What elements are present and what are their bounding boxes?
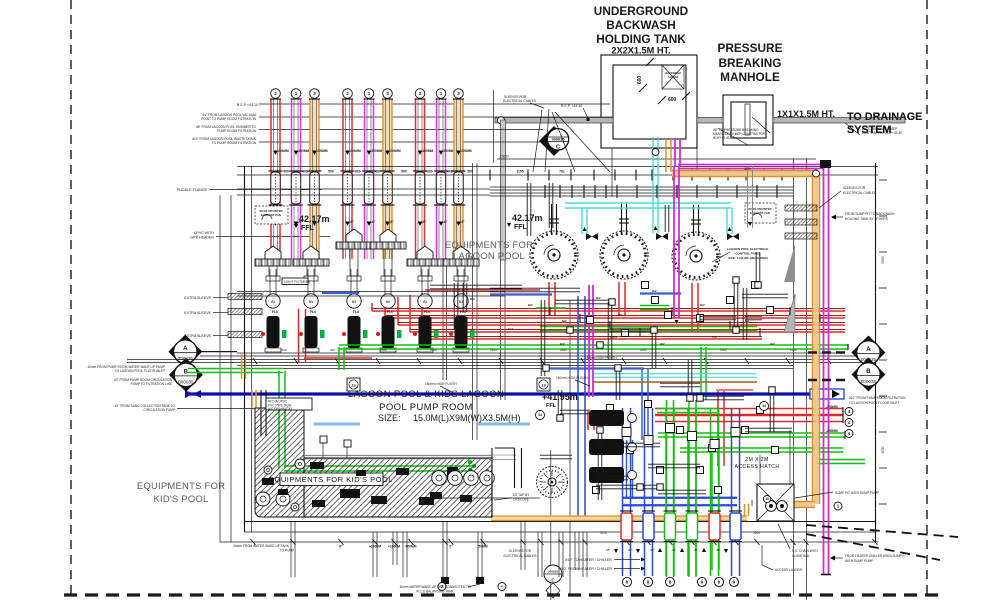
page border right [926,0,928,600]
green drop b [689,400,696,577]
panel leader [712,252,730,262]
svg-text:TO PUMP: TO PUMP [280,549,294,553]
svg-text:BOP+43.40: BOP+43.40 [713,136,730,140]
roof fan right [745,203,776,223]
center vertical pair 2 [472,163,474,440]
svg-text:EXTRA SLEEVE: EXTRA SLEEVE [184,311,211,315]
blue bottom header [623,498,737,506]
bundle line 6 [237,368,793,370]
svg-text:1300: 1300 [280,348,287,352]
svg-text:-45°: -45° [671,548,677,552]
red drop mid [588,411,594,430]
green main mid [540,327,757,331]
svg-text:CONTROL PANEL: CONTROL PANEL [735,252,761,256]
svg-text:A/C DRAINAGE): A/C DRAINAGE) [268,407,292,411]
marker C bottom [544,565,562,583]
svg-text:FFL: FFL [301,225,315,232]
svg-text:3500: 3500 [744,167,751,171]
svg-text:CONTRACTOR BOP+43.40: CONTRACTOR BOP+43.40 [862,131,902,135]
marker C top circle [547,129,568,150]
red cap right [842,407,844,423]
sleeve bar 2 [228,309,262,315]
sleeve bar r1 [785,205,817,211]
svg-text:+1600M: +1600M [369,545,381,549]
floor pipe stub 8 [537,532,539,577]
orange drop bottom [744,504,746,516]
svg-text:ELECTRICAL CABLES: ELECTRICAL CABLES [503,99,536,103]
svg-text:400: 400 [447,170,453,174]
floor pipe stub 11 [582,532,584,577]
svg-text:C: C [556,145,560,151]
tank outer wall [601,55,697,148]
marker A left [168,335,202,369]
svg-text:#10" FROM HEATER / CHILLER: #10" FROM HEATER / CHILLER [560,567,613,571]
svg-text:1: 1 [440,91,443,96]
orange bottom header [491,517,747,521]
svg-text:ACCESS HATCH: ACCESS HATCH [734,464,779,470]
orange header [672,171,816,177]
svg-text:SIZE: 1.2(L)X0.4(D)X0.4M(D): SIZE: 1.2(L)X0.4(D)X0.4M(D) [728,256,768,260]
column fittings [622,428,631,437]
marker A right [851,336,885,370]
sleeve bar r2 [785,219,817,225]
grey riser pair right [747,166,749,228]
svg-text:1: 1 [295,91,298,96]
pipe tank inlet [495,118,613,124]
red main 4 [410,331,845,333]
light fixture leaders [237,291,505,293]
hatch pump circles [256,492,270,506]
green drop d [701,347,706,400]
svg-text:13: 13 [351,383,355,387]
svg-text:-6": -6" [390,220,395,224]
svg-text:-45°: -45° [649,548,655,552]
black pipework [453,283,455,330]
sleeve line [493,90,495,163]
filter valve bowties [586,233,598,240]
bundle line 4 [127,362,875,364]
pipe tank to manhole [697,118,723,124]
floor pipe stub 2 [372,532,374,577]
hc pump 3 [589,467,624,483]
svg-text:1500: 1500 [380,348,387,352]
svg-text:#10" TO HEATER / CHILLER: #10" TO HEATER / CHILLER [565,558,612,562]
blue seg b [640,292,681,294]
red left riser [299,309,306,363]
circ1 right [834,502,842,510]
svg-text:B/V: B/V [700,303,705,307]
red main 1 [372,310,845,312]
green mid 2 [658,433,845,437]
svg-text:FROM HEATER CHILLER AREA SUMP: FROM HEATER CHILLER AREA SUMP P. [845,554,905,558]
svg-text:SIZE:: SIZE: [378,413,401,423]
svg-text:400: 400 [283,170,289,174]
svg-text:761: 761 [559,170,565,174]
riser pipe 5 [364,89,374,99]
red main short [425,289,540,291]
pipe elbow fitting [497,117,504,124]
svg-text:ACCESS LADDER: ACCESS LADDER [775,568,803,572]
box 13 left [347,378,360,391]
room bottom wall a [244,521,875,523]
bottom column 6 [732,408,740,576]
stub cap 1 [441,577,449,584]
magenta tank drop [674,139,676,166]
tank inner wall [613,65,686,139]
orange elbow circle [813,170,820,177]
svg-text:18: 18 [453,468,457,472]
plinth dashes 2 [476,423,530,426]
svg-text:SLEEVES FOR: SLEEVES FOR [843,186,866,190]
svg-text:P/G: P/G [712,335,717,339]
magenta drop long [673,166,675,318]
orange sump link [757,502,815,508]
svg-text:50MM: 50MM [478,545,487,549]
svg-text:000035: 000035 [861,379,877,384]
svg-text:-6": -6" [422,220,427,224]
leader line 2 [259,116,613,118]
kid top fittings [320,436,327,443]
svg-text:HOLDING TANK: HOLDING TANK [596,32,686,46]
sand filter 1 [530,231,578,279]
backwash access hatch [662,65,684,89]
magenta cap [821,574,831,576]
svg-text:40mm FROM WATER WAKE-UP TANK: 40mm FROM WATER WAKE-UP TANK [233,544,290,548]
floor pipe stub 4 [402,532,404,577]
stub circ a [438,583,446,591]
svg-text:FFL: FFL [514,224,528,231]
svg-text:000035: 000035 [548,570,558,574]
svg-text:PUDDLE FLANGE: PUDDLE FLANGE [177,188,208,192]
plinth edge [304,455,492,457]
cyan riser tank [653,137,658,233]
stub circ b [498,583,506,591]
sump marker [763,495,770,502]
room top line [497,158,816,160]
blue main valve [185,390,193,398]
svg-text:3: 3 [313,91,316,96]
bottom filter [537,467,568,498]
green left header [188,369,283,373]
svg-text:-6": -6" [371,220,376,224]
svg-text:01: 01 [423,300,427,304]
svg-text:B/V: B/V [560,342,565,346]
green short left [640,306,669,310]
leader to drainage [845,123,860,135]
flange ticks on header [489,170,491,181]
sand filter 2 [600,231,648,279]
red main 5 [422,338,762,340]
svg-text:900: 900 [330,348,335,352]
header pipe bottom [490,192,793,194]
hatch area vertical [255,408,304,517]
pump unit 2 [303,246,319,259]
svg-text:SLEEVES FOR: SLEEVES FOR [509,549,532,553]
svg-text:15: 15 [765,497,769,501]
svg-text:TO LAGOON POOL FLOOR INLET: TO LAGOON POOL FLOOR INLET [849,401,899,405]
svg-text:ELECTRICAL CABLES: ELECTRICAL CABLES [843,191,876,195]
svg-text:-200MM: -200MM [277,149,289,153]
svg-text:3000: 3000 [753,531,760,535]
svg-text:500: 500 [467,170,473,174]
svg-text:UNDERGROUND: UNDERGROUND [594,4,689,18]
pipe manhole to drainage [773,118,905,124]
green drop left [279,371,285,468]
manhole inner wall [731,102,766,138]
svg-text:600: 600 [637,76,643,85]
svg-text:-45°: -45° [715,548,721,552]
red bundle flanges [549,307,551,315]
svg-text:PUMP ROOM FILTRATION: PUMP ROOM FILTRATION [217,129,257,133]
red elbows [371,303,373,311]
svg-text:GUIDE RAIL: GUIDE RAIL [792,554,810,558]
svg-text:B/V: B/V [660,342,665,346]
pump unit 3 [346,229,362,242]
pump unit 6 [453,246,469,259]
svg-text:3: 3 [457,91,460,96]
plinth dashes 1 [314,423,360,426]
svg-text:-200MM: -200MM [389,149,401,153]
grey stair wedge [784,244,795,282]
red drop filter 3 [692,283,698,332]
svg-text:1500: 1500 [490,348,497,352]
svg-text:18: 18 [485,468,489,472]
manhole outer wall [723,95,773,145]
svg-text:1000: 1000 [750,499,754,506]
circ4 a [845,408,853,416]
dimension line bottom [220,541,878,543]
mid vertical line 2 [550,450,552,600]
riser pipe 3 [310,89,320,99]
svg-text:TO PUMP ROOM FILTRATION: TO PUMP ROOM FILTRATION [212,141,257,145]
stub cap 2 [476,577,484,584]
svg-text:6": 6" [339,545,343,549]
manifold line a [237,166,878,168]
blue seg c [546,367,644,369]
svg-text:N/C: N/C [562,319,567,323]
floor pipe stub 3 [392,532,394,565]
blue riser tall [578,296,585,516]
blue seg a [322,292,359,294]
marker C leaders [533,110,542,172]
bottom column 3 [666,408,674,576]
red main 2 [385,317,845,319]
room bottom wall b [244,531,875,533]
svg-text:CIRCULATION PUMP: CIRCULATION PUMP [144,408,175,412]
svg-text:4500: 4500 [881,446,885,453]
svg-text:B/V: B/V [770,342,775,346]
svg-text:150mm HIGH PLINTH: 150mm HIGH PLINTH [425,382,457,386]
svg-text:EXTRA SLEEVE: EXTRA SLEEVE [184,296,211,300]
green valve dots [468,460,472,464]
svg-text:EQUIPMENTS FOR: EQUIPMENTS FOR [445,240,533,251]
right wall outer [806,159,808,600]
bar ticks [255,259,257,266]
svg-text:-45°: -45° [693,548,699,552]
right dim ticks [879,179,887,181]
svg-text:EQUIPMENTS FOR KID'S POOL: EQUIPMENTS FOR KID'S POOL [269,475,393,484]
cyan valve circle [652,149,659,156]
svg-text:B.S.P +44.10: B.S.P +44.10 [237,103,258,107]
orange left sliver [251,390,253,408]
manifold line b [237,174,878,176]
svg-text:54: 54 [538,413,542,417]
svg-text:CRSCOPE: CRSCOPE [513,498,529,502]
svg-text:R.C.C BALANCING TANK: R.C.C BALANCING TANK [416,590,454,594]
svg-text:A: A [183,346,188,352]
leader line 3 [259,129,543,131]
pump unit 5 [417,246,433,259]
cyan stub 2 [727,208,732,234]
svg-text:34: 34 [762,404,766,408]
pump unit 4 [380,229,396,242]
svg-text:1: 1 [368,91,371,96]
svg-text:600: 600 [355,170,361,174]
svg-text:TO LAGOON POOL FLOOR INLET: TO LAGOON POOL FLOOR INLET [115,369,165,373]
svg-text:-45°: -45° [627,548,633,552]
svg-text:FFL: FFL [546,403,557,409]
riser pipe 6 [383,89,393,99]
pipe fittings [607,405,614,412]
bottom column 1 [623,408,631,576]
hatch area horizontal [304,458,492,517]
magenta elbow block [820,160,831,168]
dashed diag 2 [806,534,940,560]
svg-text:+41.95m: +41.95m [542,392,578,402]
svg-text:-200MM: -200MM [826,429,838,433]
grey link pipe [489,454,516,456]
kid pump 1 [432,471,447,486]
svg-text:40mm WATER WAKE-UP LINE CONNEC: 40mm WATER WAKE-UP LINE CONNECTED TO [400,585,471,589]
svg-text:500: 500 [401,170,407,174]
svg-text:BREAKING: BREAKING [719,56,782,70]
blue main line [185,392,836,395]
bundle line 2 [200,355,875,357]
page border left [70,0,72,600]
brown low line [592,381,757,383]
green drop c [712,437,719,570]
center vertical pair 3 [500,260,502,400]
kid top pipes [260,390,262,436]
svg-text:FLX: FLX [508,327,513,331]
svg-text:500: 500 [328,170,334,174]
svg-text:FLX: FLX [310,310,317,314]
svg-text:15000: 15000 [500,155,509,159]
red pipe right a [655,409,843,415]
left dim line 1 [219,195,221,542]
cyan header [565,203,731,208]
blue drop mid [642,368,648,440]
svg-text:1500: 1500 [720,348,727,352]
hc pump 2 [589,439,624,455]
svg-text:-200MM: -200MM [298,149,310,153]
marker B right [851,358,885,392]
svg-text:2: 2 [346,91,349,96]
svg-text:S.S. CHAIN WITH: S.S. CHAIN WITH [792,549,819,553]
mid vertical line [569,300,571,595]
svg-text:000035: 000035 [178,379,194,384]
sump pumps [766,501,777,512]
svg-text:-200MM: -200MM [826,405,838,409]
svg-text:BIT TAP BY: BIT TAP BY [513,493,531,497]
riser pipe 9 [454,89,464,99]
hatch equipment blocks [340,489,360,498]
leader manhole contractor [718,128,748,145]
svg-text:EXTRA SLEEVE: EXTRA SLEEVE [184,334,211,338]
svg-text:TO DRAINAGE: TO DRAINAGE [847,111,922,123]
leader line 1 [259,103,610,105]
magenta drop kid [588,285,590,397]
green drop a [667,400,674,577]
kid pump 2 [448,471,463,486]
svg-text:FLX: FLX [272,310,279,314]
svg-text:LAGOON POOL ELECTRICAL: LAGOON POOL ELECTRICAL [727,247,769,251]
manhole diag [752,117,770,133]
svg-text:FROM SUMP PIT TO BACKWASH: FROM SUMP PIT TO BACKWASH [845,212,895,216]
kids pool label box [280,473,383,486]
svg-text:5500: 5500 [881,256,885,263]
sleeve bar 1 [228,294,262,300]
bundle line 1 [237,352,845,354]
green kids header [284,466,474,471]
red pipe right b [655,416,843,422]
page border bottom [64,593,940,596]
floor pipe stub 10 [574,532,576,570]
sleeve bar r3 [785,233,817,239]
bottom col arrows [614,549,618,553]
svg-text:SUMP PIT WITH SUMP PUMP: SUMP PIT WITH SUMP PUMP [835,491,879,495]
green right seg [818,460,865,464]
svg-text:BACKWASH: BACKWASH [665,71,680,75]
svg-text:FLX: FLX [353,310,360,314]
svg-text:1200: 1200 [790,348,797,352]
svg-text:B/V: B/V [528,303,533,307]
bottom column 4 [688,408,696,576]
center vertical pair 1 [442,258,444,380]
red drop filter 1 [549,282,555,315]
black u pipe [514,448,516,488]
svg-text:150mm HIGH PLINTH: 150mm HIGH PLINTH [556,376,588,380]
bundle line 3 [127,359,875,361]
circ54 [536,411,545,420]
roof fan left [255,206,288,224]
marker C top diamond [539,126,569,156]
svg-text:B: B [184,369,189,375]
svg-text:01: 01 [309,300,313,304]
svg-text:ELECTRICAL CABLES: ELECTRICAL CABLES [503,554,536,558]
svg-text:-200MM: -200MM [349,149,361,153]
bottom column 2 [645,408,653,576]
svg-text:EQUIPMENTS FOR: EQUIPMENTS FOR [137,481,225,492]
svg-text:POINT TO PUMP ROOM FILTRATION: POINT TO PUMP ROOM FILTRATION [201,117,256,121]
bottom column 5 [711,408,719,576]
blue main arrow [810,389,844,399]
orange riser right [814,174,819,504]
cyan low line [592,374,757,378]
marker B left [169,358,203,392]
svg-text:#10" FROM PUMP ROOM FILTRATION: #10" FROM PUMP ROOM FILTRATION [849,396,906,400]
svg-text:-6": -6" [350,220,355,224]
svg-text:2: 2 [274,91,277,96]
svg-text:WITH SUMP PUMP: WITH SUMP PUMP [845,559,873,563]
blue drop mid2 [627,440,633,499]
riser pipe 7 [415,89,425,99]
svg-text:-200MM: -200MM [460,149,472,153]
red main 3 [398,324,845,326]
pump unit 1 [265,246,281,259]
svg-text:15.0M(L)X9M(W)X3.5M(H): 15.0M(L)X9M(W)X3.5M(H) [413,413,521,423]
sand filter 3 [672,232,720,280]
